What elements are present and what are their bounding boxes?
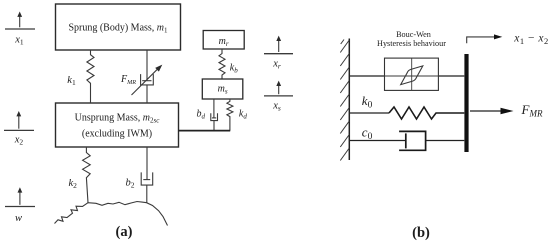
svg-text:FMR: FMR bbox=[120, 74, 136, 86]
svg-text:k0: k0 bbox=[362, 93, 373, 111]
svg-text:kb: kb bbox=[230, 62, 238, 74]
svg-text:Bouc-Wen: Bouc-Wen bbox=[396, 30, 431, 39]
svg-text:k2: k2 bbox=[69, 178, 78, 190]
svg-text:bd: bd bbox=[197, 109, 206, 121]
svg-text:b2: b2 bbox=[126, 178, 135, 190]
svg-text:x1: x1 bbox=[14, 35, 24, 47]
svg-text:x1 − x2: x1 − x2 bbox=[513, 33, 548, 46]
svg-text:xs: xs bbox=[272, 101, 281, 113]
svg-text:xr: xr bbox=[272, 59, 281, 71]
svg-text:w: w bbox=[15, 213, 22, 224]
svg-text:k1: k1 bbox=[67, 75, 76, 87]
svg-text:FMR: FMR bbox=[521, 102, 543, 119]
svg-text:mr: mr bbox=[219, 36, 229, 48]
svg-text:Hysteresis behaviour: Hysteresis behaviour bbox=[377, 39, 446, 48]
svg-text:(excluding IWM): (excluding IWM) bbox=[82, 129, 152, 140]
svg-text:Unsprung Mass, m2sc: Unsprung Mass, m2sc bbox=[75, 113, 161, 125]
svg-text:c0: c0 bbox=[362, 125, 373, 143]
svg-text:Sprung (Body) Mass, m1: Sprung (Body) Mass, m1 bbox=[68, 22, 168, 34]
svg-text:ms: ms bbox=[218, 84, 228, 96]
svg-text:(a): (a) bbox=[116, 224, 133, 240]
svg-text:kd: kd bbox=[239, 109, 247, 121]
svg-text:x2: x2 bbox=[14, 135, 24, 147]
svg-text:(b): (b) bbox=[412, 225, 430, 241]
